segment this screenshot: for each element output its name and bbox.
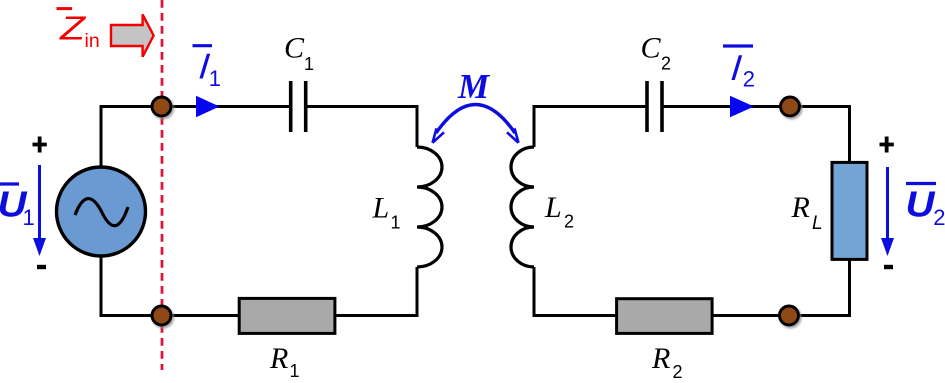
svg-text:C: C <box>641 32 662 65</box>
current arrow I2 <box>730 96 754 118</box>
svg-text:in: in <box>85 30 100 52</box>
svg-text:L: L <box>372 192 390 225</box>
svg-text:2: 2 <box>743 67 755 92</box>
capacitor C2 <box>647 81 662 132</box>
svg-text:1: 1 <box>290 361 300 381</box>
inductor L2 <box>511 147 534 267</box>
label C1 <box>284 32 314 75</box>
wire: source top terminal to node A and on to C1 <box>101 107 289 169</box>
Zin block arrow <box>111 14 154 56</box>
label U2 with overbar <box>906 184 945 231</box>
label U1 with overbar <box>0 184 35 231</box>
svg-text:L: L <box>544 191 562 224</box>
wire: L1 bottom to R1 <box>335 267 417 316</box>
plus sign (source) <box>33 137 47 153</box>
plus sign (load) <box>880 137 894 153</box>
boundary dashed line (Zin reference plane) <box>161 0 164 370</box>
svg-text:L: L <box>812 213 823 234</box>
wire: C1 to L1 top <box>306 107 417 148</box>
label Zin <box>57 9 100 52</box>
svg-text:Z: Z <box>59 10 88 47</box>
svg-text:1: 1 <box>23 205 35 230</box>
svg-text:R: R <box>791 191 810 224</box>
svg-text:M: M <box>457 67 491 106</box>
resistor R1 <box>239 298 335 333</box>
node D (bottom right) <box>780 306 799 325</box>
wire: RL bottom to node D <box>713 260 850 316</box>
inductor L1 <box>417 147 442 267</box>
label L1 <box>372 192 401 233</box>
svg-text:2: 2 <box>673 362 683 382</box>
label L2 <box>544 191 574 232</box>
U2 voltage arrow <box>881 167 894 256</box>
label I2 with overbar <box>723 46 755 92</box>
U1 voltage arrow <box>33 165 46 256</box>
svg-text:2: 2 <box>933 205 945 230</box>
label RL <box>791 191 823 234</box>
minus sign (source) <box>37 265 46 269</box>
label R2 <box>651 342 683 382</box>
wire: L2 top to C2 <box>534 107 646 148</box>
svg-text:1: 1 <box>391 213 401 233</box>
svg-text:R: R <box>269 342 288 375</box>
svg-text:1: 1 <box>304 54 314 74</box>
wire: R1 to source bottom terminal <box>101 255 240 316</box>
node A (top left) <box>152 97 171 116</box>
load resistor RL <box>832 162 867 259</box>
label I1 with overbar <box>193 46 222 91</box>
svg-text:2: 2 <box>564 212 574 232</box>
capacitor C1 <box>291 81 306 132</box>
resistor R2 <box>617 299 713 334</box>
node B (bottom left) <box>152 306 171 325</box>
label C2 <box>641 32 672 74</box>
svg-text:C: C <box>284 32 305 65</box>
label R1 <box>269 342 300 381</box>
mutual coupling arrow M <box>433 105 519 143</box>
svg-text:R: R <box>651 342 670 375</box>
wire: R2 to L2 bottom <box>534 267 617 316</box>
svg-text:1: 1 <box>209 66 221 91</box>
current arrow I1 <box>196 96 220 118</box>
node C (top right) <box>781 97 800 116</box>
AC source U1 <box>57 167 146 256</box>
wire: C2 to node C and down right side <box>663 107 850 163</box>
svg-text:2: 2 <box>661 54 671 74</box>
svg-text:U: U <box>906 184 936 225</box>
minus sign (load) <box>884 265 893 269</box>
